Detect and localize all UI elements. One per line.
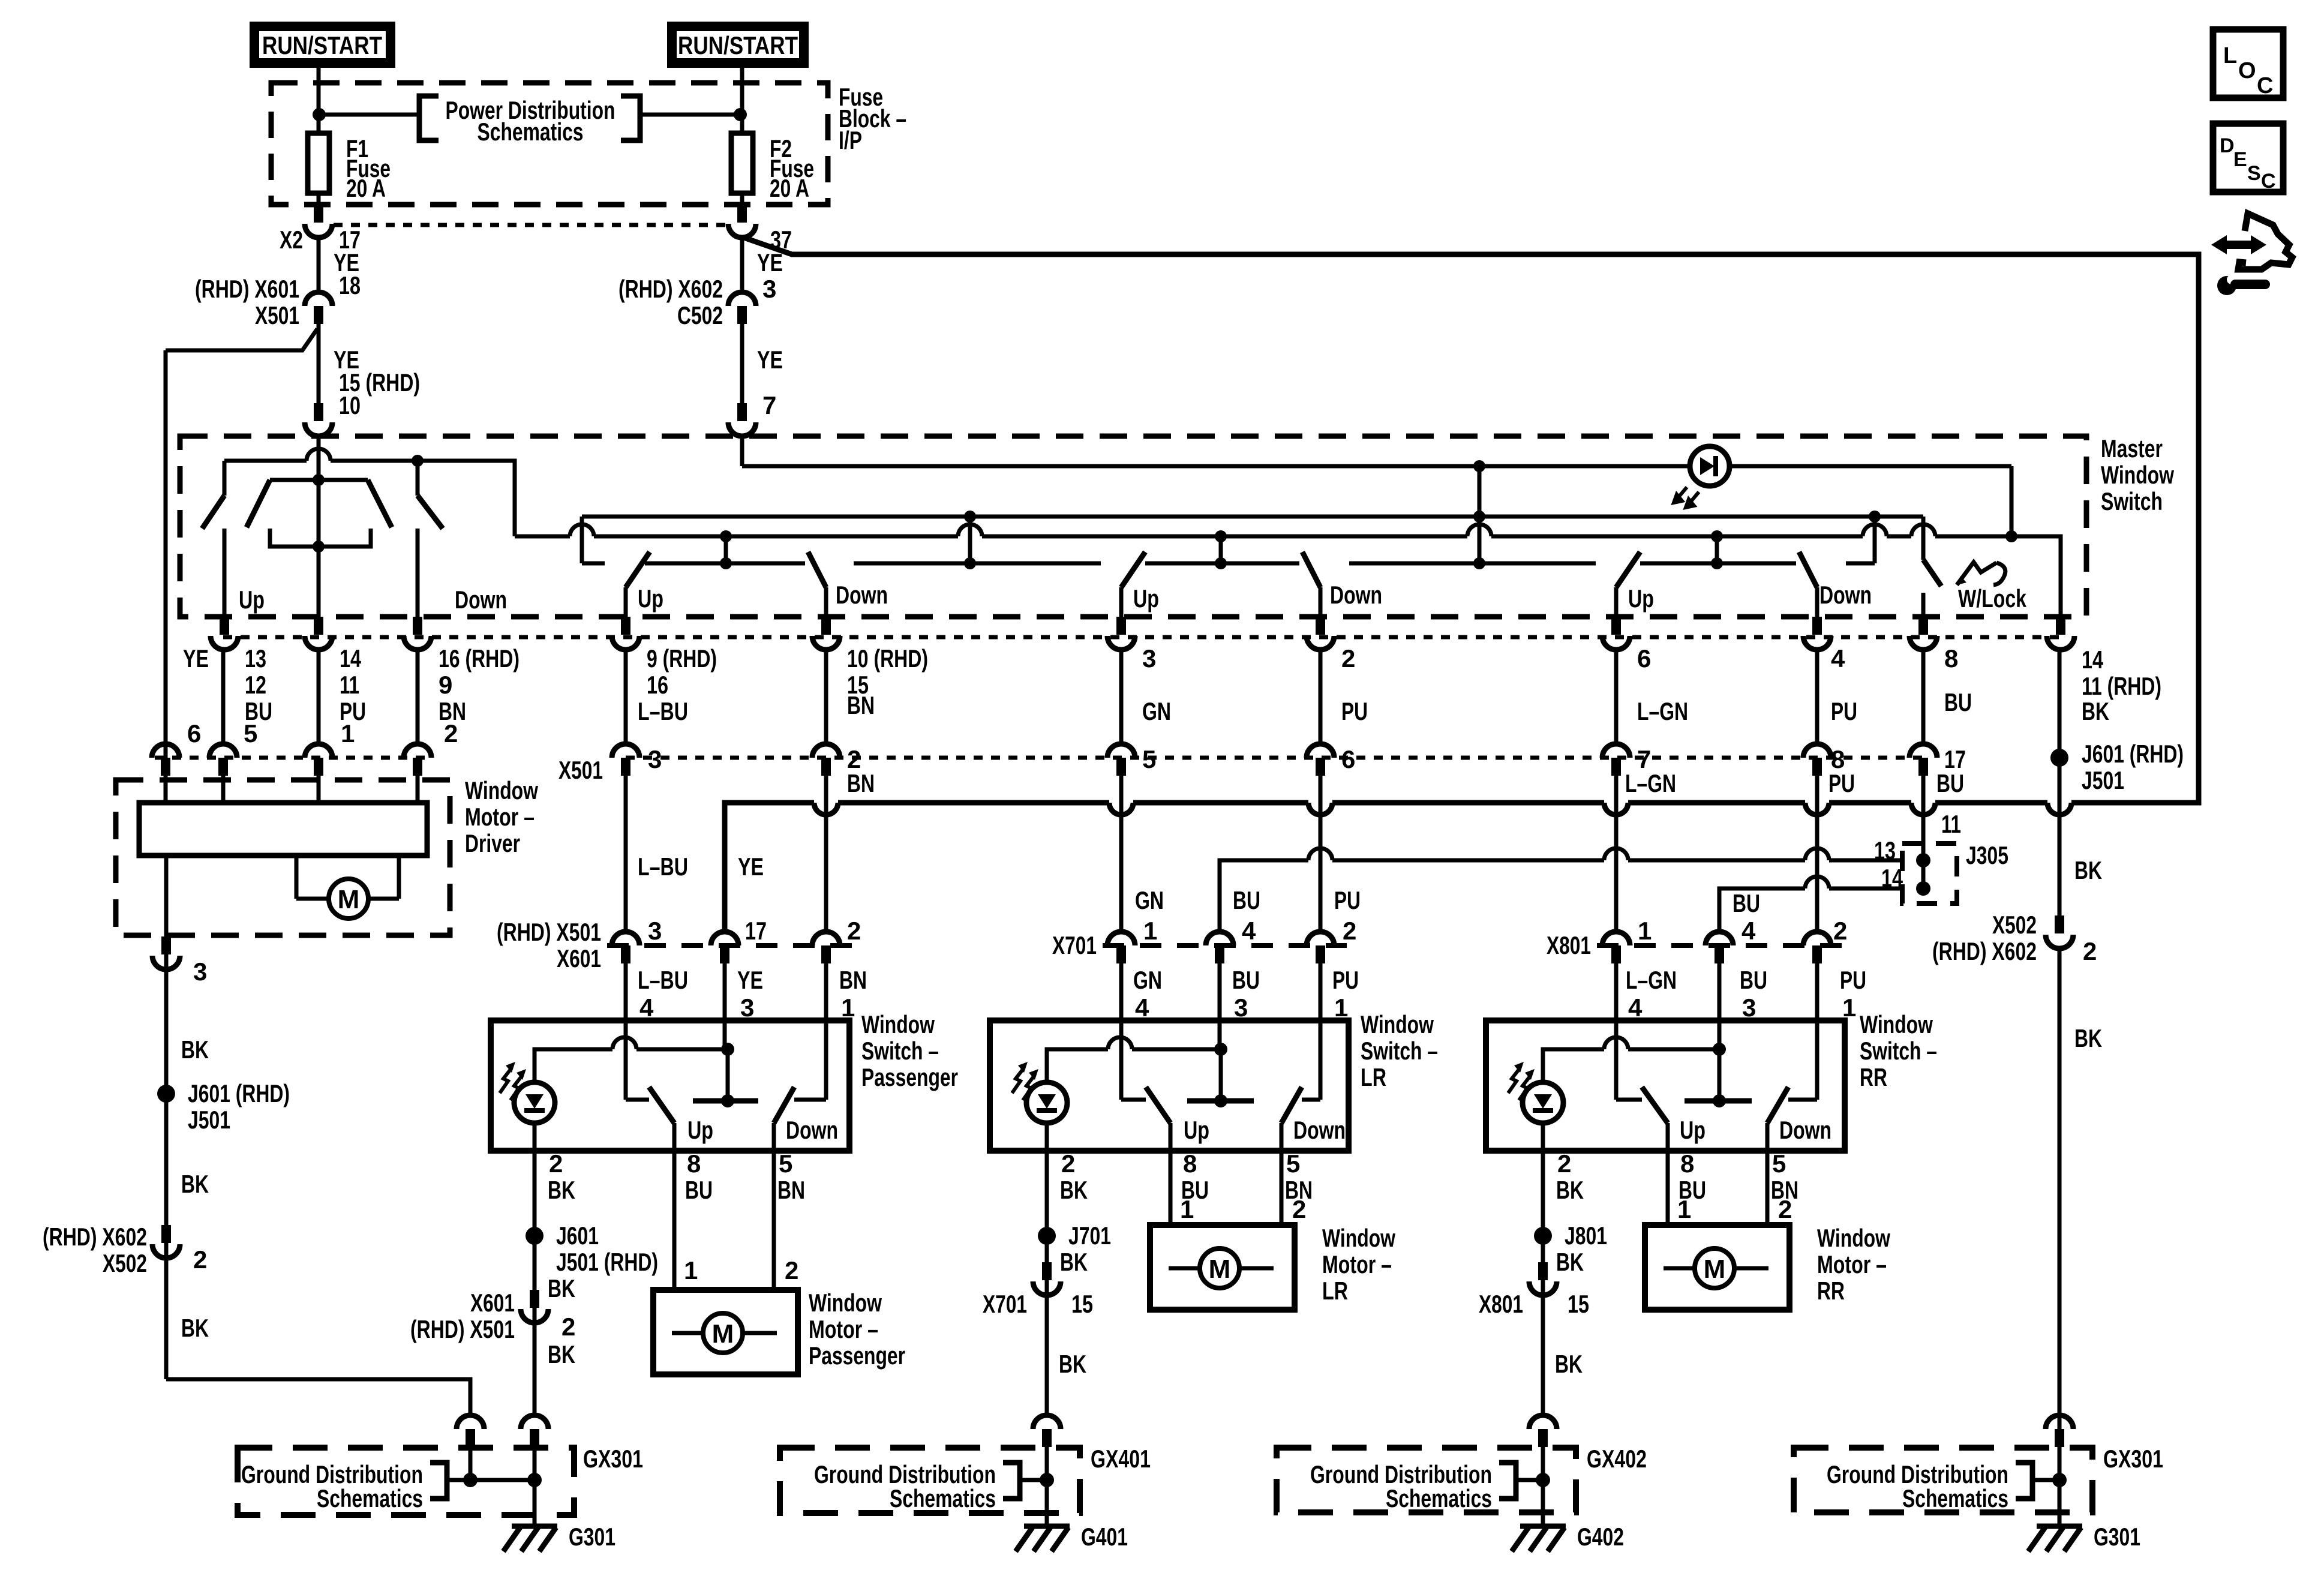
- svg-text:PU: PU: [1341, 697, 1368, 725]
- svg-text:BU: BU: [1232, 966, 1260, 994]
- svg-text:BK: BK: [1059, 1350, 1086, 1378]
- svg-text:5: 5: [1772, 1149, 1786, 1178]
- svg-text:6: 6: [1637, 644, 1651, 673]
- connector row1 passenger Up pins 9/16: [621, 617, 630, 635]
- svg-text:BK: BK: [181, 1035, 209, 1064]
- wire colour labels below row1: [245, 688, 2109, 725]
- svg-text:9 (RHD): 9 (RHD): [647, 644, 717, 673]
- bus line B: [515, 524, 2061, 617]
- svg-text:Switch –: Switch –: [1860, 1037, 1937, 1065]
- Window Switch - LR box: [990, 1010, 1438, 1151]
- X502 connector on right BK wire: [1932, 911, 2097, 965]
- svg-text:2: 2: [193, 1245, 207, 1274]
- connector X601 pin 3: [711, 932, 738, 945]
- connector X701 pin 1: [1307, 932, 1334, 945]
- svg-text:S: S: [2247, 162, 2261, 185]
- svg-text:L: L: [2223, 43, 2237, 68]
- LED feed wire (YE) across master switch: [742, 466, 2011, 534]
- vertical feed wire to window motor driver: [164, 350, 168, 745]
- svg-text:Window: Window: [1322, 1224, 1395, 1252]
- svg-text:8: 8: [687, 1149, 701, 1178]
- connector row1 RR Up pin 6: [1611, 617, 1621, 635]
- J305 line 14 to RR BU: [1719, 876, 1902, 932]
- svg-text:Window: Window: [1817, 1224, 1890, 1252]
- splice J601 (RHD) J501 on BK wire: [2050, 740, 2184, 794]
- svg-text:13: 13: [245, 644, 266, 673]
- svg-text:1: 1: [1334, 993, 1348, 1022]
- driver switch center wire: [317, 462, 321, 617]
- svg-text:10: 10: [339, 391, 361, 419]
- svg-text:2: 2: [549, 1149, 563, 1178]
- connector window motor driver pin 6: [152, 744, 179, 758]
- svg-text:GN: GN: [1135, 886, 1164, 914]
- connector row1 RR Down pin 4: [1812, 617, 1822, 635]
- J305 line 13 to LR BU: [1220, 848, 1902, 932]
- connector row1 driver Down pins 16/9: [413, 617, 422, 635]
- svg-text:C: C: [2257, 73, 2273, 98]
- svg-text:Motor –: Motor –: [1322, 1250, 1392, 1278]
- Window Motor - RR: [1645, 1149, 1890, 1310]
- svg-text:J701: J701: [1068, 1221, 1111, 1250]
- svg-text:Switch –: Switch –: [1361, 1037, 1438, 1065]
- svg-text:9: 9: [439, 671, 452, 699]
- LOC reference box: [2213, 29, 2283, 98]
- svg-text:Up: Up: [1628, 584, 1654, 613]
- svg-text:Motor –: Motor –: [465, 803, 535, 831]
- connector pin 37: [728, 205, 792, 254]
- svg-text:GX301: GX301: [583, 1445, 643, 1473]
- wires row1 to X501 row: [166, 650, 2059, 758]
- svg-text:6: 6: [1341, 745, 1355, 773]
- connector X501 pin 8: [1803, 744, 1831, 758]
- svg-text:3: 3: [193, 957, 207, 986]
- svg-text:BU: BU: [1936, 769, 1964, 797]
- svg-text:Down: Down: [786, 1116, 838, 1144]
- connector (RHD) X602 / C502: [618, 275, 776, 329]
- connector X801 pin 4: [1602, 932, 1630, 945]
- svg-text:J501: J501: [188, 1106, 230, 1134]
- svg-text:2: 2: [1343, 917, 1356, 945]
- svg-text:5: 5: [1286, 1149, 1300, 1178]
- ground G402: [1512, 1523, 1624, 1551]
- svg-text:J601 (RHD): J601 (RHD): [188, 1079, 290, 1107]
- svg-text:J601 (RHD): J601 (RHD): [2082, 740, 2184, 768]
- contact bus line C segments: [582, 557, 1875, 569]
- svg-text:YE: YE: [737, 966, 763, 994]
- connector X701 pin 3: [1206, 932, 1233, 945]
- svg-text:BK: BK: [548, 1176, 575, 1204]
- connector X2 pin 17: [280, 205, 361, 254]
- svg-text:16 (RHD): 16 (RHD): [439, 644, 520, 673]
- svg-text:Down: Down: [455, 586, 507, 614]
- svg-text:J801: J801: [1565, 1221, 1607, 1250]
- J305 splice block: [1874, 810, 2008, 903]
- svg-text:5: 5: [1142, 745, 1156, 773]
- svg-text:C: C: [2261, 170, 2276, 193]
- svg-text:Window: Window: [1860, 1010, 1933, 1038]
- svg-text:M: M: [338, 885, 360, 914]
- X601 connector row (passenger switch): [497, 917, 867, 1022]
- master LR Up switch: [1121, 552, 1159, 617]
- fuse F1: [308, 131, 391, 205]
- svg-text:16: 16: [647, 671, 668, 699]
- RUN/START box 2: [672, 26, 804, 63]
- svg-text:2: 2: [1061, 1149, 1075, 1178]
- connector X801 pin 3: [1706, 932, 1733, 945]
- Window Switch - RR box: [1486, 1010, 1937, 1151]
- svg-text:L–GN: L–GN: [1626, 966, 1677, 994]
- svg-text:PU: PU: [1840, 966, 1866, 994]
- connector into master switch (driver feed): [305, 403, 332, 436]
- svg-text:1: 1: [1842, 993, 1856, 1022]
- wire from RUN/START 2 to fuse block: [740, 67, 744, 131]
- svg-text:Up: Up: [239, 586, 265, 614]
- svg-text:BK: BK: [181, 1314, 209, 1342]
- svg-text:G301: G301: [569, 1523, 615, 1551]
- svg-text:2: 2: [1292, 1195, 1306, 1223]
- svg-text:GX401: GX401: [1091, 1445, 1151, 1473]
- connector X601 pin 4: [612, 932, 639, 945]
- X701 connector row (LR switch): [1052, 917, 1359, 1022]
- svg-text:GX402: GX402: [1587, 1445, 1647, 1473]
- connector window motor driver pin 1: [305, 744, 332, 758]
- driver motor ground wire: [43, 935, 470, 1415]
- svg-text:I/P: I/P: [839, 126, 862, 154]
- svg-text:8: 8: [1680, 1149, 1694, 1178]
- svg-text:7: 7: [762, 391, 776, 419]
- GX401 connector: [1020, 1415, 1061, 1525]
- W/Lock switch: [1875, 517, 2026, 617]
- connector window motor driver pin 5: [209, 744, 237, 758]
- driver switch feed bus H1: [224, 449, 515, 536]
- svg-text:LR: LR: [1361, 1063, 1386, 1091]
- svg-text:1: 1: [841, 993, 855, 1022]
- wires into standalone switches: [626, 963, 1817, 1100]
- wire branch diagonal to left: [166, 329, 317, 350]
- svg-text:15: 15: [1071, 1290, 1093, 1318]
- svg-text:Master: Master: [2101, 434, 2163, 463]
- svg-text:X701: X701: [1052, 931, 1097, 959]
- svg-text:Schematics: Schematics: [1386, 1484, 1492, 1512]
- connector (RHD) X601 / X501: [195, 275, 332, 329]
- svg-text:(RHD) X601: (RHD) X601: [195, 275, 299, 303]
- svg-text:3: 3: [762, 275, 776, 303]
- ground G301 left: [503, 1523, 615, 1551]
- svg-text:G402: G402: [1577, 1523, 1624, 1551]
- svg-text:BK: BK: [1060, 1176, 1088, 1204]
- label Fuse Block I/P: [839, 83, 906, 154]
- svg-text:Window: Window: [861, 1010, 935, 1038]
- svg-text:4: 4: [1831, 644, 1845, 673]
- driver switch bridge and arms: [202, 474, 507, 617]
- row1 pin labels: [183, 644, 2161, 700]
- row1 connectors: bar above, cup below: [211, 617, 2074, 650]
- svg-text:BK: BK: [1555, 1350, 1583, 1378]
- svg-text:2: 2: [785, 1256, 798, 1284]
- fuse block I/P dashed box: [271, 83, 828, 205]
- svg-text:2: 2: [1341, 644, 1355, 673]
- ground G301 right: [2028, 1523, 2140, 1551]
- svg-text:LR: LR: [1322, 1277, 1348, 1305]
- svg-text:BN: BN: [847, 691, 875, 719]
- svg-text:5: 5: [779, 1149, 792, 1178]
- connector window motor driver pin 2: [404, 744, 431, 758]
- svg-text:3: 3: [1142, 644, 1156, 673]
- connector row1 LR Down pin 2: [1316, 617, 1325, 635]
- svg-text:Up: Up: [1680, 1116, 1706, 1144]
- wire 37 feed to right: [744, 238, 2199, 803]
- svg-text:2: 2: [1833, 917, 1847, 945]
- svg-text:X2: X2: [280, 226, 303, 254]
- svg-text:J601: J601: [556, 1221, 599, 1250]
- Window Motor - Driver dashed box: [116, 776, 538, 935]
- svg-text:W/Lock: W/Lock: [1958, 584, 2026, 613]
- master passenger Down switch: [808, 552, 888, 617]
- svg-text:BK: BK: [548, 1340, 575, 1368]
- svg-text:O: O: [2238, 58, 2256, 83]
- Window Motor Driver: feed connector row (dotted): [155, 756, 428, 760]
- svg-text:3: 3: [740, 993, 754, 1022]
- connector row1 driver Up pins 13/12: [220, 617, 229, 635]
- master switch output connector row (dotted): [223, 635, 2061, 640]
- svg-text:G301: G301: [2094, 1523, 2140, 1551]
- svg-text:X501: X501: [559, 756, 603, 784]
- Window Switch - Passenger box: [491, 1010, 958, 1151]
- connector X701 pin 4: [1107, 932, 1135, 945]
- svg-text:E: E: [2233, 148, 2247, 171]
- svg-text:4: 4: [1242, 917, 1256, 945]
- svg-text:BN: BN: [839, 966, 867, 994]
- svg-text:X801: X801: [1547, 931, 1591, 959]
- svg-text:PU: PU: [1332, 966, 1359, 994]
- master passenger Up switch: [626, 552, 663, 617]
- svg-text:8: 8: [1944, 644, 1958, 673]
- svg-text:X502: X502: [1992, 911, 2037, 939]
- svg-text:14: 14: [2082, 646, 2103, 674]
- GX301 left: connectors into ground block: [447, 1415, 548, 1525]
- svg-text:Window: Window: [465, 776, 538, 804]
- GX301 right connector: [2032, 1415, 2073, 1525]
- svg-text:YE: YE: [183, 644, 209, 673]
- svg-text:20 A: 20 A: [770, 174, 809, 202]
- svg-text:4: 4: [1742, 917, 1756, 945]
- svg-text:BN: BN: [847, 769, 875, 797]
- svg-text:GN: GN: [1133, 966, 1162, 994]
- svg-text:L–BU: L–BU: [638, 697, 688, 725]
- svg-text:Driver: Driver: [465, 829, 520, 857]
- svg-text:6: 6: [187, 719, 201, 748]
- svg-text:1: 1: [684, 1256, 698, 1284]
- svg-text:BK: BK: [1556, 1176, 1584, 1204]
- svg-text:(RHD) X501: (RHD) X501: [410, 1315, 515, 1343]
- svg-text:15: 15: [1568, 1290, 1589, 1318]
- svg-text:4: 4: [1135, 993, 1149, 1022]
- svg-text:(RHD) X602: (RHD) X602: [618, 275, 723, 303]
- svg-text:YE: YE: [757, 346, 783, 374]
- GX402 connector: [1516, 1415, 1557, 1525]
- svg-text:BU: BU: [1944, 688, 1972, 716]
- svg-text:4: 4: [1628, 993, 1643, 1022]
- connector X501 pin 17: [1909, 744, 1937, 758]
- illumination LED (master): [1674, 446, 1730, 508]
- wires X501 down: [626, 763, 2059, 932]
- svg-text:Motor –: Motor –: [809, 1315, 878, 1343]
- wire from RUN/START 1 to fuse block: [317, 67, 321, 131]
- svg-text:Down: Down: [1330, 581, 1382, 609]
- svg-text:3: 3: [648, 745, 662, 773]
- svg-text:Up: Up: [638, 584, 663, 613]
- connector X501 pin 6: [1307, 744, 1334, 758]
- YE wire F2 down: [740, 236, 744, 292]
- RUN/START box 1: [254, 26, 391, 63]
- svg-text:RUN/START: RUN/START: [262, 31, 382, 59]
- svg-text:Down: Down: [1779, 1116, 1831, 1144]
- svg-text:BK: BK: [2074, 856, 2102, 884]
- svg-text:1: 1: [1677, 1195, 1691, 1223]
- svg-text:Passenger: Passenger: [861, 1063, 958, 1091]
- svg-text:GN: GN: [1142, 697, 1171, 725]
- svg-text:L–BU: L–BU: [638, 966, 688, 994]
- svg-text:BK: BK: [2074, 1024, 2102, 1052]
- svg-text:PU: PU: [1334, 886, 1361, 914]
- svg-text:J501 (RHD): J501 (RHD): [556, 1248, 658, 1276]
- svg-text:(RHD) X501: (RHD) X501: [497, 918, 601, 946]
- LR switch ground wire: [983, 1149, 1111, 1415]
- YE wire F1 down: [317, 236, 321, 292]
- svg-text:8: 8: [1183, 1149, 1197, 1178]
- svg-text:Switch –: Switch –: [861, 1037, 939, 1065]
- svg-text:11: 11: [1941, 810, 1961, 838]
- svg-text:3: 3: [648, 917, 662, 945]
- svg-text:Schematics: Schematics: [890, 1484, 996, 1512]
- mid wire colour labels: [638, 852, 2102, 917]
- svg-text:X502: X502: [103, 1249, 147, 1277]
- DESC reference box: [2213, 124, 2283, 193]
- connector X801 pin 1: [1803, 932, 1831, 945]
- svg-text:Down: Down: [836, 581, 888, 609]
- Master Window Switch dashed box: [180, 436, 2086, 617]
- svg-text:BU: BU: [1733, 889, 1760, 917]
- svg-text:YE: YE: [738, 852, 764, 881]
- svg-text:PU: PU: [1831, 697, 1857, 725]
- YE feed line across (from pin 37 wire): [725, 803, 2073, 932]
- Ground Distribution box GX301 right: [1794, 1445, 2163, 1512]
- svg-text:1: 1: [1180, 1195, 1194, 1223]
- svg-text:L–GN: L–GN: [1625, 769, 1676, 797]
- svg-text:J501: J501: [2082, 766, 2124, 794]
- svg-text:2: 2: [2083, 937, 2097, 965]
- svg-text:18: 18: [339, 271, 361, 299]
- Ground Distribution box GX301 left: [238, 1445, 643, 1515]
- svg-text:3: 3: [1742, 993, 1756, 1022]
- svg-text:Up: Up: [687, 1116, 713, 1144]
- svg-text:1: 1: [1638, 917, 1652, 945]
- svg-text:Up: Up: [1184, 1116, 1209, 1144]
- svg-text:(RHD) X602: (RHD) X602: [43, 1223, 147, 1251]
- connector X601 pin 1: [812, 932, 840, 945]
- svg-text:BU: BU: [1233, 886, 1260, 914]
- svg-text:Window: Window: [2101, 461, 2174, 489]
- svg-text:14: 14: [340, 644, 361, 673]
- svg-text:Window: Window: [1361, 1010, 1434, 1038]
- svg-text:(RHD) X602: (RHD) X602: [1932, 937, 2037, 965]
- Ground Distribution box GX402: [1277, 1445, 1647, 1512]
- svg-text:GX301: GX301: [2103, 1445, 2163, 1473]
- svg-text:X801: X801: [1479, 1290, 1523, 1318]
- svg-text:BK: BK: [548, 1274, 575, 1302]
- svg-text:L–GN: L–GN: [1637, 697, 1688, 725]
- connector row1 passenger Down pins 10/15: [821, 617, 831, 635]
- master RR Down switch: [1799, 552, 1872, 617]
- svg-text:4: 4: [639, 993, 654, 1022]
- passenger switch ground wire: [410, 1149, 658, 1415]
- X801 connector row (RR switch): [1547, 917, 1866, 1022]
- svg-text:RR: RR: [1817, 1277, 1845, 1305]
- svg-text:2: 2: [847, 917, 861, 945]
- svg-text:2: 2: [562, 1313, 575, 1341]
- svg-text:3: 3: [1234, 993, 1248, 1022]
- svg-text:X601: X601: [557, 944, 601, 972]
- fuse block output dotted row: [334, 223, 728, 227]
- svg-text:11: 11: [340, 671, 359, 699]
- svg-text:Schematics: Schematics: [1902, 1484, 2008, 1512]
- svg-text:X501: X501: [255, 301, 299, 329]
- svg-text:BK: BK: [2082, 697, 2109, 725]
- svg-text:BK: BK: [1060, 1248, 1088, 1276]
- svg-text:C502: C502: [677, 301, 723, 329]
- svg-text:1: 1: [341, 719, 355, 748]
- RR switch ground wire: [1479, 1149, 1607, 1415]
- svg-text:M: M: [1704, 1254, 1726, 1284]
- svg-text:X701: X701: [983, 1290, 1027, 1318]
- svg-text:12: 12: [245, 671, 266, 699]
- connector X501 pin 2: [812, 744, 840, 758]
- svg-text:RR: RR: [1860, 1063, 1887, 1091]
- connector into master switch (YE feed): [728, 403, 756, 436]
- master LR Down switch: [1302, 552, 1382, 617]
- svg-text:PU: PU: [1828, 769, 1855, 797]
- svg-text:Schematics: Schematics: [317, 1484, 423, 1512]
- ground G401: [1016, 1523, 1128, 1551]
- svg-text:YE: YE: [757, 248, 783, 277]
- tie verticals B-C: [726, 536, 1717, 563]
- connector row1 LR Up pin 3: [1116, 617, 1126, 635]
- svg-text:G401: G401: [1081, 1523, 1128, 1551]
- svg-text:Passenger: Passenger: [809, 1341, 905, 1370]
- svg-text:Down: Down: [1293, 1116, 1346, 1144]
- Window Motor - Passenger: [653, 1149, 905, 1374]
- svg-text:J305: J305: [1966, 841, 2008, 869]
- svg-text:RUN/START: RUN/START: [678, 31, 798, 59]
- Ground Distribution box GX401: [780, 1445, 1151, 1513]
- svg-text:L–BU: L–BU: [638, 852, 688, 881]
- svg-text:BU: BU: [1740, 966, 1767, 994]
- fuse F2: [731, 131, 814, 205]
- svg-text:20 A: 20 A: [346, 174, 386, 202]
- svg-text:2: 2: [444, 719, 458, 748]
- svg-text:M: M: [1209, 1254, 1231, 1284]
- svg-text:17: 17: [745, 917, 767, 945]
- svg-text:Switch: Switch: [2101, 487, 2163, 515]
- X501 row pin labels: [648, 745, 1966, 773]
- svg-text:M: M: [712, 1319, 734, 1349]
- bus line A: [582, 511, 1881, 523]
- svg-text:X601: X601: [470, 1289, 515, 1317]
- svg-text:Down: Down: [1819, 581, 1872, 609]
- YE wire continues + branch to motor feed: [317, 324, 321, 406]
- Window Motor - LR: [1150, 1149, 1395, 1310]
- tie verticals A-C: [582, 460, 1875, 563]
